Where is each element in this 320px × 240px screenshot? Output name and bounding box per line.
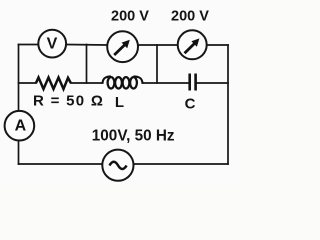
meter M1 needle [114, 40, 130, 55]
resistor R, 50 ohm zigzag [36, 78, 71, 90]
AC source sine symbol [110, 162, 127, 169]
inductor L coil [103, 76, 143, 88]
meter M2 needle [185, 38, 200, 53]
wire middle row: inductor to capacitor [143, 82, 190, 84]
wire top: corner to voltmeter V [19, 44, 39, 46]
wire junction drop at node between L and C [156, 45, 158, 83]
voltmeter V circle [38, 30, 66, 58]
svg-text:A: A [15, 118, 27, 135]
wire right vertical [227, 45, 229, 164]
svg-text:C: C [185, 96, 196, 113]
meter M2 circle (200 V across C) [178, 30, 207, 59]
svg-text:100V, 50 Hz: 100V, 50 Hz [92, 127, 175, 144]
AC source circle [102, 150, 133, 181]
wire middle row: resistor to inductor [71, 82, 103, 84]
wire junction drop at node between R and L [86, 45, 88, 84]
wire top: M1 to meter M2 [139, 44, 178, 46]
capacitor C plates [190, 74, 196, 91]
meter M1 circle (200 V across L) [107, 31, 138, 62]
svg-text:V: V [47, 36, 58, 53]
svg-text:L: L [115, 94, 124, 111]
wire bottom horizontal [19, 163, 229, 165]
wire middle row: left rail to resistor [19, 82, 37, 84]
ammeter A circle [5, 111, 35, 141]
wire left vertical [18, 45, 20, 165]
wire top: M2 to right rail [207, 44, 228, 46]
svg-text:200 V: 200 V [111, 9, 149, 25]
svg-text:200 V: 200 V [171, 9, 209, 25]
wire middle row: capacitor to right rail [196, 82, 228, 84]
wire top: V to meter M1 [67, 44, 108, 47]
svg-text:R = 50 Ω: R = 50 Ω [33, 92, 104, 109]
